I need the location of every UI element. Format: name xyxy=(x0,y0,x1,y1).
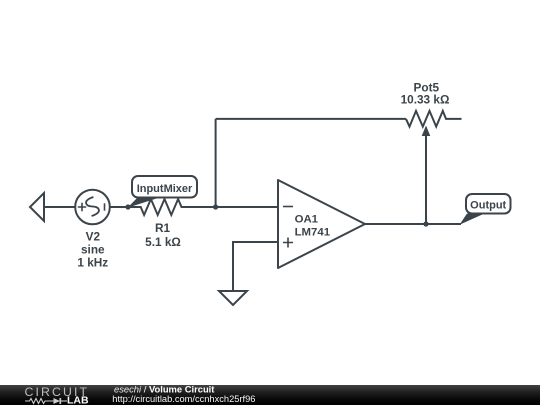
svg-text:http://circuitlab.com/ccnhxch2: http://circuitlab.com/ccnhxch25rf96 xyxy=(112,394,255,404)
wire feedback vertical xyxy=(215,119,217,207)
wire V2 to node xyxy=(110,206,128,208)
label R1 value xyxy=(145,221,181,249)
svg-text:1 kHz: 1 kHz xyxy=(77,256,108,270)
flag Output xyxy=(460,194,511,225)
svg-text:R1: R1 xyxy=(155,221,171,235)
svg-text:V2: V2 xyxy=(86,230,101,244)
net flag arrow (input, left) xyxy=(30,193,44,221)
svg-text:Output: Output xyxy=(470,200,506,212)
svg-text:OA1: OA1 xyxy=(295,214,319,226)
wire plus input xyxy=(233,242,278,291)
svg-text:sine: sine xyxy=(81,243,105,257)
wire flag to V2 xyxy=(44,206,76,208)
svg-text:LM741: LM741 xyxy=(295,227,331,239)
wire R1 to op-amp inverting input xyxy=(196,206,278,208)
svg-text:10.33 kΩ: 10.33 kΩ xyxy=(401,92,450,106)
resistor R1 xyxy=(128,199,196,215)
node output junction xyxy=(423,221,428,226)
label Pot5 value xyxy=(401,81,450,107)
potentiometer Pot5 xyxy=(406,111,462,224)
wire output xyxy=(365,223,461,225)
CircuitLab logo xyxy=(24,386,94,405)
wire feedback horizontal xyxy=(216,118,406,120)
ground xyxy=(219,291,247,305)
node InputMixer junction xyxy=(125,204,130,209)
footer credits xyxy=(0,385,540,405)
node feedback junction xyxy=(213,204,218,209)
voltage source V2 xyxy=(75,190,110,225)
label V2 sine 1kHz xyxy=(77,230,108,270)
flag InputMixer xyxy=(128,176,198,208)
svg-text:5.1 kΩ: 5.1 kΩ xyxy=(145,235,181,249)
svg-text:InputMixer: InputMixer xyxy=(137,183,193,195)
op-amp OA1 xyxy=(278,180,365,268)
footer bar xyxy=(0,385,540,405)
